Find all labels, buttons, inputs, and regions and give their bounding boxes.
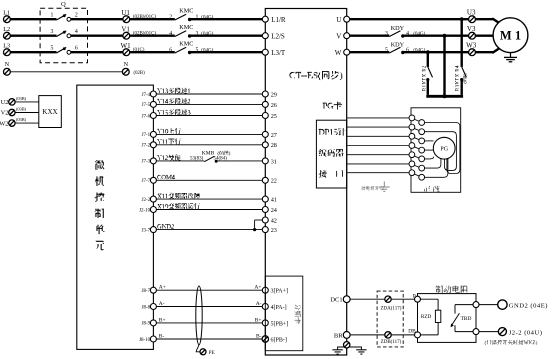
svg-text:J7-6: J7-6 bbox=[142, 114, 151, 119]
svg-text:A+: A+ bbox=[254, 285, 261, 291]
svg-text:(03B): (03B) bbox=[16, 107, 27, 112]
svg-text:W: W bbox=[335, 49, 342, 57]
svg-text:28: 28 bbox=[271, 142, 277, 149]
svg-text:5[PB+]: 5[PB+] bbox=[271, 321, 289, 327]
svg-text:V2: V2 bbox=[1, 110, 9, 117]
svg-text:27: 27 bbox=[271, 132, 277, 139]
svg-text:25: 25 bbox=[271, 113, 277, 120]
svg-text:(03B): (03B) bbox=[16, 117, 27, 122]
svg-text:DC1: DC1 bbox=[330, 297, 342, 304]
svg-text:J7-3: J7-3 bbox=[142, 160, 151, 165]
svg-text:J7-2: J7-2 bbox=[142, 144, 151, 149]
svg-text:J2-10: J2-10 bbox=[139, 208, 151, 213]
svg-text:J8-9: J8-9 bbox=[142, 322, 151, 327]
svg-text:4[PA-]: 4[PA-] bbox=[271, 305, 287, 311]
svg-text:KMC: KMC bbox=[179, 24, 193, 31]
svg-text:23: 23 bbox=[271, 227, 277, 234]
svg-text:B-: B- bbox=[256, 334, 262, 340]
svg-text:L1/R: L1/R bbox=[271, 16, 286, 24]
svg-text:ZDB(117): ZDB(117) bbox=[381, 340, 402, 345]
svg-text:(03B): (03B) bbox=[16, 96, 27, 101]
svg-text:1: 1 bbox=[50, 13, 53, 19]
svg-text:J8-10: J8-10 bbox=[139, 338, 151, 343]
svg-text:3: 3 bbox=[385, 31, 388, 37]
svg-text:P: P bbox=[413, 293, 416, 299]
svg-text:6: 6 bbox=[75, 46, 78, 52]
svg-text:KMC: KMC bbox=[179, 7, 193, 14]
svg-text:Q: Q bbox=[61, 1, 66, 8]
svg-text:J8-8: J8-8 bbox=[142, 305, 151, 310]
svg-text:53(83): 53(83) bbox=[190, 156, 204, 161]
svg-text:ZDA(117): ZDA(117) bbox=[380, 307, 401, 312]
svg-text:U2: U2 bbox=[1, 99, 9, 106]
svg-text:22: 22 bbox=[271, 178, 277, 185]
svg-text:J2-2: J2-2 bbox=[142, 198, 151, 203]
svg-text:4: 4 bbox=[75, 29, 78, 35]
svg-text:RZD: RZD bbox=[421, 314, 432, 320]
svg-text:KDY: KDY bbox=[391, 42, 405, 49]
svg-text:PG: PG bbox=[440, 147, 448, 153]
svg-text:N: N bbox=[124, 61, 129, 68]
svg-text:31: 31 bbox=[271, 158, 277, 165]
svg-text:BR: BR bbox=[334, 332, 343, 339]
svg-text:GND2 (04E): GND2 (04E) bbox=[509, 302, 548, 309]
svg-text:B+: B+ bbox=[255, 317, 262, 323]
svg-text:2: 2 bbox=[75, 13, 78, 19]
svg-text:J2-2 (04U): J2-2 (04U) bbox=[509, 329, 543, 336]
svg-text:3[PA+]: 3[PA+] bbox=[271, 289, 289, 295]
svg-text:5: 5 bbox=[50, 46, 53, 52]
svg-text:J8-7: J8-7 bbox=[142, 289, 151, 294]
svg-text:L2/S: L2/S bbox=[271, 32, 285, 40]
svg-text:J7-7: J7-7 bbox=[142, 179, 151, 184]
svg-text:KXX: KXX bbox=[42, 108, 57, 116]
svg-text:PE: PE bbox=[209, 351, 215, 356]
svg-text:TBD: TBD bbox=[461, 316, 472, 322]
svg-text:41: 41 bbox=[271, 197, 277, 204]
svg-text:N: N bbox=[5, 61, 10, 68]
svg-text:J3-7: J3-7 bbox=[142, 228, 151, 233]
svg-text:J7-5: J7-5 bbox=[142, 103, 151, 108]
svg-text:A-: A- bbox=[256, 301, 262, 307]
svg-text:42: 42 bbox=[271, 217, 277, 224]
svg-text:26: 26 bbox=[271, 102, 277, 109]
svg-text:W2: W2 bbox=[0, 120, 8, 127]
svg-text:(02B): (02B) bbox=[134, 71, 146, 76]
svg-text:KDY: KDY bbox=[391, 25, 405, 32]
svg-text:J7-4: J7-4 bbox=[142, 93, 151, 98]
svg-text:DB: DB bbox=[408, 329, 416, 335]
svg-text:U: U bbox=[336, 16, 341, 24]
svg-text:A-: A- bbox=[159, 301, 165, 307]
svg-text:J7-1: J7-1 bbox=[142, 133, 151, 138]
svg-text:24: 24 bbox=[271, 207, 277, 214]
svg-text:M 1: M 1 bbox=[500, 28, 521, 42]
svg-text:L3/T: L3/T bbox=[271, 49, 286, 57]
svg-text:B+: B+ bbox=[159, 317, 166, 323]
svg-text:B-: B- bbox=[159, 334, 165, 340]
svg-text:A+: A+ bbox=[159, 285, 166, 291]
svg-text:6[PB-]: 6[PB-] bbox=[271, 337, 287, 343]
svg-text:54(84): 54(84) bbox=[214, 156, 228, 161]
svg-text:3: 3 bbox=[50, 29, 53, 35]
svg-text:5: 5 bbox=[385, 48, 388, 54]
svg-text:29: 29 bbox=[271, 91, 277, 98]
svg-text:KMC: KMC bbox=[179, 40, 193, 47]
svg-text:V: V bbox=[336, 32, 341, 40]
